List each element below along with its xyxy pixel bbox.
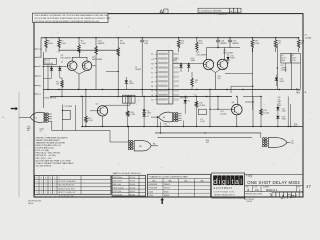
- svg-text:10-7-66: 10-7-66: [130, 177, 136, 179]
- digital logo block: [212, 173, 245, 198]
- svg-text:g: g: [222, 179, 226, 186]
- diode D14 D-662: [275, 75, 284, 87]
- wire: Q4 collector: [224, 48, 226, 60]
- svg-text:DEC3639B: DEC3639B: [92, 59, 103, 61]
- scan speckle noise: [20, 2, 314, 205]
- svg-text:PARTS LIST A-PL-M302-0-0: PARTS LIST A-PL-M302-0-0: [113, 172, 142, 175]
- svg-text:F2: F2: [151, 54, 153, 56]
- connector strip B pin list: [151, 51, 179, 105]
- svg-text:D662: D662: [129, 83, 133, 85]
- svg-text:·5: ·5: [50, 188, 51, 190]
- svg-text:C1: C1: [35, 117, 37, 119]
- svg-text:.01MFD: .01MFD: [135, 69, 142, 71]
- svg-text:M302-0-1: M302-0-1: [266, 188, 278, 192]
- svg-text:D7: D7: [147, 116, 149, 118]
- svg-text:2 CS-B303-0-1 REVISED: 2 CS-B303-0-1 REVISED: [199, 11, 222, 13]
- svg-text:U2 V2 W2 GND TMB: U2 V2 W2 GND TMB: [59, 196, 74, 198]
- diode cluster gate1 inputs: [44, 113, 52, 122]
- svg-text:B-2N36: B-2N36: [130, 194, 136, 196]
- wire: Q6 collector: [236, 97, 238, 105]
- wire: gate2 feed: [110, 126, 129, 142]
- resistor R19 3,000: [251, 37, 260, 52]
- diode cluster gateB inputs: [173, 113, 181, 122]
- capacitor C17 .01MFD: [281, 65, 288, 71]
- resistor R17 3000: [217, 96, 226, 116]
- svg-text:(2,000): (2,000): [199, 105, 205, 107]
- wire: Q1 collector: [71, 57, 73, 61]
- svg-text:PRINTED CIRCUIT REV.: PRINTED CIRCUIT REV.: [246, 194, 263, 196]
- wire: gateB right drop: [183, 121, 184, 128]
- wire: x252 vertical: [252, 48, 254, 110]
- svg-text:E1: E1: [282, 55, 284, 57]
- wire: pair2 emitters: [211, 69, 221, 89]
- svg-text:POS: POS: [292, 60, 295, 62]
- svg-text:D662: D662: [173, 60, 177, 62]
- wire: drop x118 lower: [117, 52, 119, 97]
- wire: Q3 collector: [206, 48, 208, 60]
- svg-text:B: B: [248, 188, 250, 192]
- wire: +10V top rail: [41, 37, 299, 39]
- svg-text:1/10 DELMTRON: 1/10 DELMTRON: [36, 165, 52, 167]
- wire: lower rail D: [155, 132, 261, 133]
- svg-text:F1: F1: [292, 55, 294, 57]
- resistor R2 7,500: [58, 37, 67, 52]
- svg-text:JAN 66: JAN 66: [28, 202, 34, 205]
- svg-text:·4: ·4: [50, 185, 51, 187]
- svg-text:3,000: 3,000: [254, 43, 260, 45]
- svg-text:H2 J2 K2 PULSE OUT: H2 J2 K2 PULSE OUT: [59, 185, 75, 187]
- svg-text:TRIG: TRIG: [296, 93, 301, 95]
- node: modifications note: [28, 199, 42, 205]
- transistor Q5 DEC3639B: [96, 104, 108, 116]
- svg-text:C--: C--: [2, 117, 5, 119]
- svg-text:+10V(B): +10V(B): [281, 69, 288, 71]
- wire: trigger entry: [19, 116, 30, 118]
- svg-text:·7: ·7: [50, 196, 51, 198]
- title block: [244, 173, 303, 203]
- capacitor C15 .01MFD: [161, 122, 171, 133]
- svg-text:C O R P O R A T I O N: C O R P O R A T I O N: [213, 190, 234, 193]
- svg-text:7,500: 7,500: [61, 43, 67, 45]
- node: trigger input arrow: [11, 107, 18, 111]
- wire: box drop to trigger: [47, 65, 48, 91]
- pulse gate PA-B trigger: [159, 112, 173, 122]
- svg-text:PROD C.Moore: PROD C.Moore: [113, 187, 124, 189]
- svg-text:D662: D662: [147, 113, 151, 115]
- svg-text:A2: A2: [163, 116, 165, 119]
- node: +10 pulse amp label: [27, 126, 44, 133]
- svg-text:D662: D662: [231, 58, 235, 60]
- svg-text:1,500: 1,500: [88, 120, 93, 122]
- svg-text:·3: ·3: [45, 185, 46, 187]
- resistor R26 100: [206, 140, 209, 144]
- svg-text:E1: E1: [39, 66, 41, 68]
- wire: gate3 feed: [260, 133, 262, 138]
- wire: Q5 base: [90, 110, 97, 112]
- wire: mid rail B: [50, 96, 262, 98]
- wire: gate1 output down: [52, 121, 110, 142]
- svg-text:R1: R1: [151, 95, 153, 97]
- svg-text:3,000: 3,000: [48, 43, 54, 45]
- svg-text:D5: D5: [188, 101, 190, 103]
- svg-text:D1: D1: [39, 57, 41, 59]
- wire: drop x142 lower: [141, 48, 143, 97]
- svg-text:B-RC07: B-RC07: [130, 191, 136, 193]
- transistor Q2 DEC3639B: [82, 57, 102, 71]
- pulse amplifier PA1: [30, 112, 44, 122]
- svg-text:10-9-66: 10-9-66: [130, 184, 136, 186]
- svg-text:D662: D662: [191, 60, 195, 62]
- svg-text:ONE SHOT DELAY M302: ONE SHOT DELAY M302: [247, 180, 300, 185]
- wire: pair2 output to Q6 base: [209, 89, 231, 127]
- transistor Q1 DEC3639B: [61, 55, 77, 70]
- svg-text:a: a: [235, 179, 239, 186]
- revision table: [198, 8, 241, 16]
- svg-text:M2 N2 P2 DLYD TRIG: M2 N2 P2 DLYD TRIG: [59, 188, 76, 190]
- wire: Q3 base line: [173, 63, 203, 64]
- parts list table: [112, 175, 146, 196]
- svg-text:·1: ·1: [41, 181, 42, 183]
- diode cluster gate2 inputs: [128, 140, 134, 149]
- svg-text:·5: ·5: [45, 192, 46, 194]
- wire: emitters common: [74, 71, 85, 90]
- diode D17 D-662: [276, 104, 286, 115]
- svg-text:·2: ·2: [45, 181, 46, 183]
- svg-text:(3,000): (3,000): [221, 113, 227, 115]
- svg-text:1,500: 1,500: [81, 43, 87, 45]
- svg-text:H1: H1: [39, 85, 41, 87]
- node: J2 TMB label: [294, 124, 298, 128]
- diode D8 D-662: [125, 77, 134, 90]
- svg-text:F1: F1: [39, 76, 41, 78]
- svg-text:N1: N1: [151, 86, 153, 88]
- svg-text:D1: D1: [305, 35, 307, 37]
- resistor R10 1500: [126, 96, 134, 127]
- node: R15 label: [218, 76, 221, 80]
- power connection table: [35, 176, 112, 198]
- svg-text:1.5K: 1.5K: [199, 43, 204, 45]
- wire: lower rail E: [158, 137, 252, 139]
- diode D1 D-664: [43, 66, 53, 79]
- svg-text:(1,500): (1,500): [263, 112, 269, 114]
- svg-text:·2: ·2: [41, 185, 42, 187]
- wire: left vertical bus: [42, 52, 44, 108]
- svg-text:·6: ·6: [54, 188, 55, 190]
- wire: stub y71.5: [106, 71, 119, 72]
- transistor Q6 DEC3639B: [232, 102, 243, 115]
- svg-text:S2: S2: [151, 100, 153, 102]
- wire: Q2 collector: [86, 57, 88, 61]
- resistor C20 68MFD: [95, 37, 105, 55]
- resistor R9 6,800: [117, 37, 126, 56]
- svg-text:6,800: 6,800: [120, 43, 126, 45]
- svg-text:·3: ·3: [41, 188, 42, 190]
- junction dots mid rails: [58, 89, 280, 97]
- terminal box output DLYD POS: [291, 53, 300, 63]
- resistor R4 750: [56, 78, 63, 97]
- diode cluster gate3 inputs: [262, 138, 268, 147]
- svg-text:2%: 2%: [40, 131, 43, 133]
- transistor and diode conversion chart: [148, 174, 211, 197]
- wire: Q5 collector to rail: [106, 96, 131, 107]
- svg-text:47: 47: [306, 184, 311, 189]
- svg-text:TRIGGER: TRIGGER: [180, 98, 189, 100]
- svg-text:1,500: 1,500: [130, 114, 135, 116]
- svg-text:D-664: D-664: [149, 195, 154, 197]
- pulse transformer T1: [122, 95, 135, 103]
- capacitor C2 label: [135, 67, 142, 71]
- diode D18 D-662: [276, 116, 286, 127]
- svg-text:PULSE IN: PULSE IN: [45, 63, 53, 65]
- svg-text:M2: M2: [151, 82, 153, 84]
- wire: gate2 output: [151, 143, 158, 146]
- wire: link to x252: [225, 74, 253, 94]
- svg-text:1,500: 1,500: [200, 121, 205, 123]
- svg-text:COPYRIGHT 1967 BY DIGITAL EQUI: COPYRIGHT 1967 BY DIGITAL EQUIPMENT CORP…: [34, 20, 100, 23]
- diode D2 D-664: [58, 66, 61, 78]
- pulse amplifier PA3: [268, 137, 287, 147]
- wire: Q6 emitter: [236, 115, 238, 127]
- pulse amplifier PA2: [134, 141, 151, 151]
- svg-text:DEC FORM NO: DEC FORM NO: [244, 199, 255, 201]
- wire: collector bridge: [72, 50, 87, 57]
- terminal box output DLYD NEG: [281, 53, 291, 63]
- svg-text:D662: D662: [280, 81, 284, 83]
- node: chart pointer arrow: [160, 198, 164, 204]
- node: revision flag mark: [160, 9, 168, 13]
- wire: right verticals upper: [277, 44, 301, 90]
- capacitor C3 1.5MFD: [62, 105, 73, 131]
- resistor R12 470: [177, 37, 185, 52]
- svg-text:750: 750: [56, 84, 59, 86]
- wire: pair2 collector link: [207, 47, 241, 48]
- svg-text:68MFD: 68MFD: [232, 43, 239, 45]
- svg-text:DRN R.Nolan: DRN R.Nolan: [113, 177, 123, 179]
- transistor Q3 DEC3639B: [197, 52, 214, 69]
- capacitor C10 680: [140, 37, 149, 48]
- svg-text:K2: K2: [151, 72, 153, 74]
- svg-text:L2: L2: [39, 94, 41, 96]
- svg-text:d: d: [213, 179, 217, 186]
- svg-text:E Q U I P M E N T: E Q U I P M E N T: [214, 188, 233, 190]
- transistor Q4 DEC6534B: [217, 50, 233, 70]
- svg-text:·3: ·3: [36, 192, 37, 194]
- diode D6 D-662: [142, 96, 150, 115]
- svg-text:D1: D1: [61, 62, 63, 64]
- terminal box C1 pulse input: [44, 59, 57, 65]
- svg-text:·8: ·8: [54, 196, 55, 198]
- svg-text:.01MFD: .01MFD: [164, 126, 171, 128]
- capacitor C14 68MFD: [228, 37, 240, 48]
- wire: Q2 base feed: [92, 65, 96, 67]
- svg-text:R2 S2 T2 +10V(B) -15V: R2 S2 T2 +10V(B) -15V: [59, 192, 77, 194]
- resistor R18 1500: [260, 96, 270, 127]
- svg-text:R 470 1/4W: R 470 1/4W: [113, 191, 122, 193]
- svg-text:TRIGGER IN: TRIGGER IN: [44, 98, 57, 100]
- resistor R8 1500: [85, 89, 93, 127]
- svg-text:·5: ·5: [41, 196, 42, 198]
- svg-text:·0: ·0: [36, 181, 37, 183]
- wire: collector cross link: [59, 50, 119, 51]
- wire: x253 lower vertical: [245, 97, 254, 127]
- svg-text:CS: CS: [255, 188, 259, 192]
- svg-text:·4: ·4: [45, 188, 46, 190]
- node: TRIGGER label B: [180, 98, 189, 100]
- wire: base wire node: [42, 65, 67, 67]
- svg-text:DEC3639B: DEC3639B: [197, 55, 208, 57]
- svg-text:H2: H2: [151, 63, 153, 65]
- wire: rail left end drop: [40, 38, 42, 58]
- resistor R5 1,500: [78, 37, 87, 53]
- svg-text:·7: ·7: [54, 192, 55, 194]
- svg-text:J2: J2: [151, 68, 153, 70]
- svg-text:DEC3639B: DEC3639B: [61, 58, 72, 60]
- svg-text:.01: .01: [278, 99, 280, 101]
- resistor R11 2000: [194, 94, 206, 127]
- svg-text:10-12-6: 10-12-6: [130, 187, 136, 189]
- resistor R21 470: [274, 37, 282, 52]
- svg-text:L1: L1: [151, 77, 153, 79]
- diode D7 D-664: [142, 113, 149, 127]
- svg-text:·6: ·6: [50, 192, 51, 194]
- wire: lower rail C: [81, 126, 303, 127]
- diode D5 D-664: [184, 96, 190, 114]
- svg-text:+10V(A): +10V(A): [305, 36, 312, 39]
- svg-text:TRANSISTOR & DIODE CONVERSION: TRANSISTOR & DIODE CONVERSION CHART: [149, 176, 189, 179]
- wire: right verticals lower: [288, 97, 290, 127]
- connector pins left edge: [34, 49, 42, 96]
- svg-text:68MFD: 68MFD: [220, 43, 227, 45]
- notes: unless otherwise indicated: [36, 137, 75, 168]
- diode D11 D-662: [226, 54, 234, 64]
- wire: x82.3 vertical: [82, 96, 83, 127]
- capacitor C4 box: [198, 109, 206, 123]
- diode D10 D-662: [187, 58, 195, 72]
- resistor R1 3,000: [45, 37, 54, 52]
- svg-text:·4: ·4: [36, 196, 37, 198]
- svg-text:47: 47: [195, 82, 197, 84]
- wire: C20 drop to Q2: [95, 55, 97, 90]
- svg-text:ENG J.Fink: ENG J.Fink: [113, 184, 121, 186]
- resistor R23 470: [297, 37, 305, 52]
- wire: mid rail A: [43, 89, 300, 91]
- svg-text:10-9-66: 10-9-66: [130, 181, 136, 183]
- svg-text:D662: D662: [282, 111, 286, 113]
- diode D9 D-662: [173, 58, 183, 72]
- wire: x75.7 vertical: [75, 105, 77, 131]
- svg-text:D662: D662: [282, 119, 286, 121]
- svg-text:100: 100: [206, 142, 209, 144]
- resistor R13 1.5K: [196, 37, 204, 52]
- svg-text:CIRCUITS ARE PROPRIETARY IN NA: CIRCUITS ARE PROPRIETARY IN NATURE AND S…: [34, 17, 111, 20]
- wire: gateB input node: [151, 116, 159, 126]
- note box: proprietary notice: [33, 13, 112, 23]
- svg-text:·6: ·6: [45, 196, 46, 198]
- svg-text:68MFD: 68MFD: [98, 43, 105, 45]
- svg-text:·5: ·5: [54, 185, 55, 187]
- svg-text:·4: ·4: [54, 181, 55, 183]
- svg-text:·4: ·4: [41, 192, 42, 194]
- svg-text:T DEC3639B: T DEC3639B: [113, 194, 122, 196]
- svg-text:·1: ·1: [36, 185, 37, 187]
- wire: Q5 emitter: [102, 116, 104, 127]
- svg-text:C3 1.5MFD: C3 1.5MFD: [64, 106, 73, 108]
- svg-text:P2: P2: [151, 91, 153, 93]
- svg-text:·2: ·2: [36, 188, 37, 190]
- resistor R14 47: [191, 72, 199, 90]
- svg-text:·3: ·3: [50, 181, 51, 183]
- svg-text:C16: C16: [278, 97, 281, 99]
- svg-text:TITLE: TITLE: [246, 176, 250, 178]
- wire: gate3 output PO: [287, 141, 295, 145]
- svg-text:THIS SCHEMATIC IS FURNISHED ON: THIS SCHEMATIC IS FURNISHED ONLY FOR TES…: [34, 14, 108, 17]
- capacitor C40 68MFD: [216, 37, 228, 48]
